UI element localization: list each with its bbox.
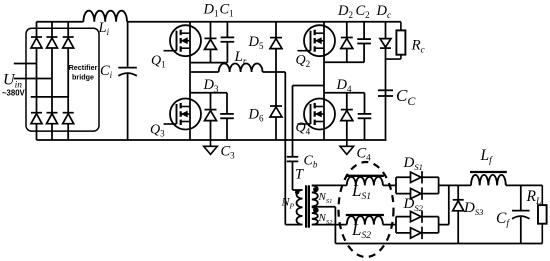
inductor Li: [83, 11, 127, 22]
capacitor Ci: [118, 68, 137, 76]
wire primary bottom lead: [285, 224, 302, 226]
diode bridge top 2: [47, 37, 58, 48]
diode bridge bottom 3: [63, 113, 74, 124]
wire D2 branch: [346, 22, 348, 63]
wire to Lr: [190, 71, 219, 73]
wire output bottom rail: [335, 243, 542, 245]
wire D5 D6 branch: [275, 22, 277, 140]
wire Lf to RL: [506, 184, 543, 186]
inductor Ls1: [346, 176, 384, 186]
wire Dc Cc branch: [385, 22, 387, 140]
wire Ds2 output up: [439, 185, 449, 224]
wire center tap: [312, 207, 336, 244]
wire Cf branch: [520, 185, 522, 243]
wire right leg: [323, 22, 325, 140]
wire D3 C3 top node: [190, 92, 227, 94]
wire C3 branch: [226, 93, 228, 140]
dot primary: [295, 190, 299, 194]
capacitor C2: [357, 39, 371, 43]
wire C4 branch: [364, 93, 366, 140]
capacitor C3: [220, 114, 234, 118]
dot Ns2: [313, 208, 317, 212]
inductor Lr: [219, 63, 263, 72]
transistor Q1: [164, 25, 202, 56]
diode Dc: [380, 39, 391, 49]
capacitor C1: [221, 37, 235, 41]
wire Ds3 branch: [457, 185, 459, 243]
wire D4 C4 top node: [324, 92, 365, 94]
wire phase input b: [14, 78, 52, 80]
capacitor C4: [358, 114, 372, 118]
wire D4 branch: [346, 93, 348, 140]
diode bridge top 1: [31, 37, 42, 48]
svg-text:T: T: [295, 167, 304, 183]
diode Ds1 upper: [411, 171, 423, 183]
wire Ns1 to Ls1: [312, 184, 347, 186]
capacitor Cc: [378, 90, 393, 96]
wire rectifier column 2: [51, 22, 53, 140]
wire Ci branch: [127, 22, 129, 140]
svg-text:Rectifier: Rectifier: [69, 63, 98, 72]
winding Ns2 coil: [312, 207, 318, 224]
wire Lr to node: [263, 71, 286, 73]
wire rectifier column 1: [36, 22, 38, 140]
diode Ds2 lower: [411, 227, 423, 239]
wire C1 branch: [226, 22, 228, 63]
diode D2: [341, 38, 353, 49]
diode bridge bottom 2: [47, 113, 58, 124]
wire left leg: [189, 22, 191, 140]
wire rectified output top: [439, 184, 471, 186]
diode bridge top 3: [63, 37, 74, 48]
winding Ns1 coil: [312, 186, 318, 207]
diode Ds3: [453, 200, 464, 211]
wire primary top lead: [293, 189, 303, 191]
resistor Rc: [386, 22, 406, 59]
capacitor Cb: [287, 157, 299, 162]
transistor Q3: [164, 99, 202, 130]
inductor Ls2: [346, 215, 384, 225]
wire D1 C1 bottom node: [190, 62, 227, 64]
ground left: [204, 140, 218, 154]
wire phase input a: [14, 63, 37, 65]
diode D6: [270, 106, 282, 117]
wire rectifier column 3: [67, 22, 69, 140]
wire Ds2 branches: [396, 217, 439, 233]
wire D1 branch: [210, 22, 212, 63]
transistor Q4: [298, 99, 336, 130]
diode D5: [270, 38, 282, 49]
diode D1: [205, 38, 217, 49]
wire phase input c: [31, 96, 68, 98]
transistor Q2: [298, 25, 336, 56]
winding Np: [297, 190, 303, 225]
wire C2 branch: [363, 22, 365, 63]
transformer core: [306, 185, 309, 227]
wire primary return line: [284, 72, 286, 225]
wire Ls2 to Ds2: [383, 224, 396, 226]
svg-text:~380V: ~380V: [2, 89, 26, 98]
resistor RL: [538, 185, 547, 243]
wire right leg mid tap: [293, 85, 325, 87]
diode D4: [341, 110, 353, 121]
wire Ls1 to Ds1: [383, 184, 396, 186]
capacitor Cf: [512, 211, 530, 219]
wire Ns2 to Ls2: [312, 224, 347, 226]
wire bottom bus: [37, 139, 387, 141]
diode bridge bottom 1: [31, 113, 42, 124]
diode Ds1 lower: [411, 187, 423, 199]
wire D2 C2 bottom node: [324, 61, 364, 63]
svg-text:bridge: bridge: [72, 73, 94, 82]
diode Ds2 upper: [411, 210, 423, 222]
wire Ds1 branches: [396, 177, 439, 193]
wire D3 branch: [210, 93, 212, 140]
dot Ns1: [313, 187, 317, 191]
wire top bus left: [37, 21, 84, 23]
ground right: [340, 140, 354, 154]
wire Cb branch: [292, 86, 294, 191]
rectifier bridge box: [26, 28, 99, 131]
leakage inductance ellipse: [339, 162, 394, 257]
inductor Lf: [470, 172, 507, 185]
diode D3: [205, 110, 217, 121]
wire top bus right: [127, 21, 401, 23]
